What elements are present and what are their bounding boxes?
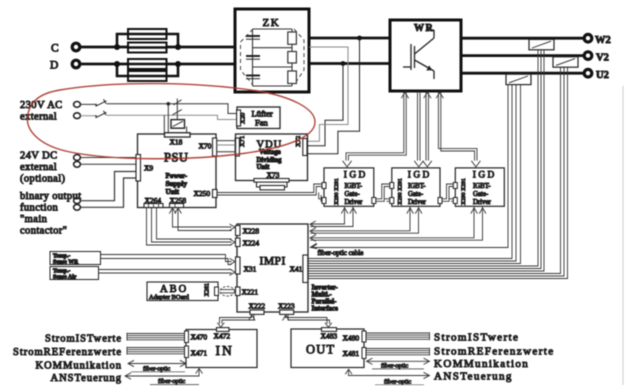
bus StromREF right xyxy=(366,348,430,356)
connector X470 xyxy=(185,331,208,343)
svg-text:IGD: IGD xyxy=(473,170,497,180)
terminal 230V AC line1 xyxy=(74,102,81,108)
bus StromIST right xyxy=(366,332,430,340)
block Temp Sense WR xyxy=(50,252,101,266)
node junction wire1 to X18 xyxy=(167,102,171,106)
wire X222 to X472 xyxy=(217,314,255,327)
svg-text:(optional): (optional) xyxy=(20,174,66,185)
ZK rail top xyxy=(253,28,293,30)
svg-text:X222: X222 xyxy=(249,302,266,311)
resistor R2 xyxy=(288,52,297,64)
svg-text:IGBT-: IGBT- xyxy=(345,183,363,190)
svg-text:Interface: Interface xyxy=(312,306,338,313)
svg-text:24V DC: 24V DC xyxy=(20,151,58,162)
wire D bus xyxy=(80,63,235,66)
svg-text:Gate-: Gate- xyxy=(408,191,424,198)
svg-text:Supply: Supply xyxy=(166,180,188,188)
node junction D right xyxy=(175,61,181,67)
svg-text:Multi.-: Multi.- xyxy=(312,292,333,299)
connector IGD1 right pin xyxy=(372,198,376,204)
svg-text:IMPI: IMPI xyxy=(260,256,286,268)
relay K1 box xyxy=(171,120,185,129)
svg-text:X472: X472 xyxy=(214,332,231,341)
svg-text:Driver: Driver xyxy=(345,199,363,206)
svg-text:X224: X224 xyxy=(243,239,260,248)
wire stray vertical right xyxy=(622,86,624,385)
svg-text:StromISTwerte: StromISTwerte xyxy=(434,332,519,344)
current sensor T3 (U2) xyxy=(506,74,531,84)
svg-text:X18: X18 xyxy=(170,138,183,147)
relay contact blade2 xyxy=(173,110,182,115)
svg-text:fiber-optic: fiber-optic xyxy=(381,363,408,370)
svg-text:StromREFerenzwerte: StromREFerenzwerte xyxy=(13,347,122,358)
fiber link KOMM right xyxy=(367,358,430,369)
svg-text:X9: X9 xyxy=(144,164,153,173)
wire WR gate arrow to IGD3 xyxy=(436,92,480,167)
red annotation ellipse xyxy=(27,84,315,159)
block ABO Adapter BOard xyxy=(147,282,218,301)
capacitor C3 xyxy=(246,76,260,79)
wire X223 to X483 xyxy=(283,314,332,327)
svg-text:X483: X483 xyxy=(321,332,338,341)
wire bundle sensor V2 to X41 xyxy=(308,67,568,278)
connector X18 xyxy=(165,133,191,147)
connector X228 xyxy=(236,226,260,236)
connector X20 xyxy=(237,110,247,126)
fuse F1 (C bypass) xyxy=(128,29,167,39)
svg-text:X480: X480 xyxy=(343,334,360,343)
terminal W2 xyxy=(584,34,611,46)
ZK right bus xyxy=(291,29,293,86)
svg-text:StromISTwerte: StromISTwerte xyxy=(45,334,122,345)
connector X290 X291 (IGD3 pins) xyxy=(453,178,467,205)
resistor R1 xyxy=(288,32,297,44)
wire daisy chain IGD2 to IGD3 xyxy=(442,184,453,201)
wire WR gate arrow to IGD2 a xyxy=(414,92,423,167)
fiber link ANST right xyxy=(345,369,429,385)
wire DC tap to VDU X72 pin1 xyxy=(308,64,343,146)
svg-text:X20: X20 xyxy=(240,113,247,124)
wire 230V line2 xyxy=(81,115,237,119)
connector X258 xyxy=(170,196,187,208)
connector X18 bar xyxy=(165,133,191,137)
wire fiber pair IGD2 to IMPI xyxy=(310,206,422,234)
wire ZK to WR upper xyxy=(309,37,390,40)
svg-text:230V AC: 230V AC xyxy=(20,100,63,111)
connector X41 xyxy=(290,255,308,283)
cable plug symbol ABO-X221 xyxy=(220,287,235,297)
node junction C left xyxy=(114,44,120,50)
svg-text:X250: X250 xyxy=(194,189,211,198)
terminal 24V line2 xyxy=(74,161,81,167)
svg-text:Sense Air: Sense Air xyxy=(53,275,77,281)
connector X261 xyxy=(205,283,219,296)
svg-text:X290 X291: X290 X291 xyxy=(334,178,340,205)
fiber link KOMM left xyxy=(128,360,186,372)
wire X250 supply bus to IGD1 xyxy=(217,184,322,201)
block IN xyxy=(186,330,257,368)
terminal V2 xyxy=(584,52,609,64)
svg-text:KOMMunikation: KOMMunikation xyxy=(36,361,123,372)
bus StromREF left xyxy=(127,347,185,355)
svg-text:ANSTeuerung: ANSTeuerung xyxy=(434,371,513,383)
svg-text:fiber-optic: fiber-optic xyxy=(384,378,411,385)
ZK rail mid2 xyxy=(253,66,293,68)
wire relay to X18 xyxy=(186,127,188,133)
capacitor C1 xyxy=(246,36,260,39)
capacitor C2 xyxy=(246,56,260,59)
switch S2 xyxy=(95,111,106,118)
wire temp Air to X31 xyxy=(99,269,236,275)
terminal 24V line1 xyxy=(74,155,81,161)
svg-text:X290 X291: X290 X291 xyxy=(461,178,467,205)
wire WR gate arrow to IGD2 b xyxy=(423,92,432,167)
block IGD3 xyxy=(455,168,504,206)
terminal 230V AC line2 xyxy=(74,113,81,119)
wire WR to W2 xyxy=(461,37,585,40)
svg-text:X73: X73 xyxy=(267,170,280,179)
wire binary line1 to X9 xyxy=(81,172,138,201)
wire WR to U2 xyxy=(461,72,585,75)
bus StromIST left xyxy=(127,333,185,341)
svg-text:X470: X470 xyxy=(191,333,208,342)
svg-text:fiber-optic: fiber-optic xyxy=(143,365,170,372)
terminal C xyxy=(51,43,80,55)
svg-text:ANSTeuerung: ANSTeuerung xyxy=(50,373,122,384)
label 24V DC external optional xyxy=(20,151,66,185)
connector X483 xyxy=(321,328,338,341)
wire D bypass loop xyxy=(117,64,178,76)
wire X264 to X224 xyxy=(147,208,236,246)
connector IGD2 right pin xyxy=(438,198,442,204)
svg-text:C: C xyxy=(51,43,59,55)
svg-text:W2: W2 xyxy=(595,35,611,46)
wire drop wire1 to X18 xyxy=(167,104,169,133)
svg-text:X228: X228 xyxy=(243,227,260,236)
node tap lower bus xyxy=(341,61,346,66)
wire fiber pair IGD3 to IMPI xyxy=(310,206,486,241)
block VDU xyxy=(236,134,308,181)
svg-text:X71: X71 xyxy=(239,136,246,147)
svg-text:external: external xyxy=(20,162,57,173)
svg-text:Driver: Driver xyxy=(473,199,491,206)
svg-text:IGD: IGD xyxy=(408,170,432,180)
svg-text:X481: X481 xyxy=(343,349,360,358)
svg-text:binary output: binary output xyxy=(20,191,81,202)
svg-text:X290 X291: X290 X291 xyxy=(398,178,404,205)
label 230V AC external xyxy=(20,100,63,123)
wire X258 to X228 xyxy=(169,208,235,231)
svg-text:Driver: Driver xyxy=(408,199,426,206)
svg-text:D: D xyxy=(50,60,58,72)
svg-text:X221: X221 xyxy=(242,288,259,297)
svg-text:IGBT-: IGBT- xyxy=(473,183,491,190)
svg-text:OUT: OUT xyxy=(306,343,335,357)
svg-text:Adapter BOard: Adapter BOard xyxy=(149,294,190,301)
connector X250 xyxy=(194,189,218,198)
svg-text:Sense WR: Sense WR xyxy=(53,260,79,266)
relay contact lead xyxy=(176,99,178,120)
connector X31 xyxy=(236,257,257,274)
svg-text:V2: V2 xyxy=(596,52,609,63)
terminal binary line2 xyxy=(74,204,81,210)
block Luefter Fan xyxy=(237,107,280,129)
connector X471 xyxy=(185,346,208,358)
fuse F4 (D bypass) xyxy=(128,71,167,81)
block IGD2 xyxy=(392,168,440,206)
current sensor T1 (W2) xyxy=(529,39,554,49)
connector X472 xyxy=(214,328,231,341)
terminal U2 xyxy=(584,69,609,81)
svg-text:Power-: Power- xyxy=(166,172,188,180)
relay contact blade1 xyxy=(174,100,182,105)
wire temp WR to X31 xyxy=(101,255,236,265)
wire fiber pair IGD1 to IMPI xyxy=(310,206,356,227)
terminal binary line1 xyxy=(74,198,81,204)
connector X290 X291 (IGD2 pins) xyxy=(390,178,404,205)
svg-text:fiber-optic: fiber-optic xyxy=(158,378,185,385)
svg-text:function: function xyxy=(20,203,59,214)
block Temp Sense Air xyxy=(50,267,99,281)
connector X224 xyxy=(236,238,260,248)
block ZK (DC-link) xyxy=(235,9,309,92)
wire DC tap upper to VDU X72 pin3 xyxy=(308,38,360,154)
svg-text:ZK: ZK xyxy=(263,17,281,29)
svg-text:Gate-: Gate- xyxy=(345,191,361,198)
svg-text:WR: WR xyxy=(414,23,434,34)
connector X70 link PSU-VDU xyxy=(199,138,240,156)
label binary output function main contactor xyxy=(20,191,81,237)
svg-text:contactor": contactor" xyxy=(20,226,67,237)
svg-text:PSU: PSU xyxy=(164,151,188,165)
svg-text:X41: X41 xyxy=(290,265,303,274)
wire bundle sensor U2 to X41 xyxy=(308,85,521,264)
resistor R3 xyxy=(288,71,297,84)
transistor IGBT symbol in WR xyxy=(403,30,434,79)
connector X480 xyxy=(343,331,367,343)
svg-text:X261: X261 xyxy=(205,283,211,296)
connector X9 xyxy=(136,155,153,182)
node junction C right xyxy=(175,44,181,50)
fuse F3 (D line) xyxy=(128,59,167,69)
fiber link ANST left xyxy=(125,369,203,385)
svg-text:KOMMunikation: KOMMunikation xyxy=(434,358,529,370)
svg-text:Unit: Unit xyxy=(166,188,180,196)
connector X264 xyxy=(144,196,163,208)
wire drop wire2 to X18 xyxy=(163,115,165,133)
node junction D left xyxy=(114,61,120,67)
svg-text:IGBT-: IGBT- xyxy=(408,183,426,190)
svg-text:external: external xyxy=(20,112,57,123)
connector X221 xyxy=(236,287,259,297)
svg-text:Fan: Fan xyxy=(255,118,269,128)
current sensor T2 (V2) xyxy=(553,57,578,67)
wire 230V line1 xyxy=(81,104,237,114)
ZK rail bottom xyxy=(253,85,293,87)
wire WR to V2 xyxy=(461,54,585,57)
svg-text:IN: IN xyxy=(216,343,234,358)
wire ZK sense to VDU X72 pin2 xyxy=(308,47,348,141)
svg-text:X31: X31 xyxy=(244,265,257,274)
svg-text:IGD: IGD xyxy=(344,170,368,180)
svg-text:X70: X70 xyxy=(199,142,212,151)
wire bundle sensor W2 to X41 xyxy=(308,50,544,271)
terminal D xyxy=(50,60,80,72)
block IGD1 xyxy=(324,168,374,206)
wire binary line2 to X9 xyxy=(81,178,138,207)
wire C bypass loop xyxy=(117,34,178,47)
svg-text:Dividing: Dividing xyxy=(257,157,283,164)
wire WR gate arrow to IGD1 xyxy=(343,92,409,167)
wire 24V line1 xyxy=(81,157,138,159)
block IMPI xyxy=(237,224,308,312)
svg-text:StromREFerenzwerte: StromREFerenzwerte xyxy=(434,346,555,358)
ZK dashed frame xyxy=(241,29,305,85)
label fiber-optic cable xyxy=(310,243,363,257)
connector X73 (VDU bottom plug) xyxy=(254,170,289,190)
block PSU xyxy=(138,134,217,208)
switch S1 xyxy=(95,99,106,106)
wire daisy chain IGD1 to IGD2 xyxy=(376,184,390,201)
svg-text:fiber-optic cable: fiber-optic cable xyxy=(318,249,364,257)
svg-text:Gate-: Gate- xyxy=(473,191,489,198)
svg-text:"main: "main xyxy=(20,214,48,225)
wire 24V line2 xyxy=(81,163,138,165)
wire C bus xyxy=(80,46,235,49)
ZK rail mid1 xyxy=(253,47,293,49)
connector X223 xyxy=(278,302,295,315)
connector X290 X291 (IGD1 pins) xyxy=(322,178,340,205)
block WR (inverter) xyxy=(390,20,461,91)
block OUT xyxy=(291,329,364,368)
connector X222 xyxy=(249,302,266,315)
fuse F2 (C line) xyxy=(128,43,167,53)
svg-text:U2: U2 xyxy=(596,70,609,81)
wire ZK to WR lower xyxy=(309,62,390,65)
label Inverter-Multi.-Parallel-Interface xyxy=(312,285,339,313)
svg-text:Inverter-: Inverter- xyxy=(312,285,339,292)
node tap upper bus xyxy=(357,36,362,41)
connector X72 (VDU right) xyxy=(295,136,307,156)
ZK left bus xyxy=(252,29,254,86)
svg-text:Parallel-: Parallel- xyxy=(312,299,338,306)
svg-text:X471: X471 xyxy=(191,349,208,358)
connector X481 xyxy=(343,348,367,359)
svg-text:X223: X223 xyxy=(278,302,295,311)
